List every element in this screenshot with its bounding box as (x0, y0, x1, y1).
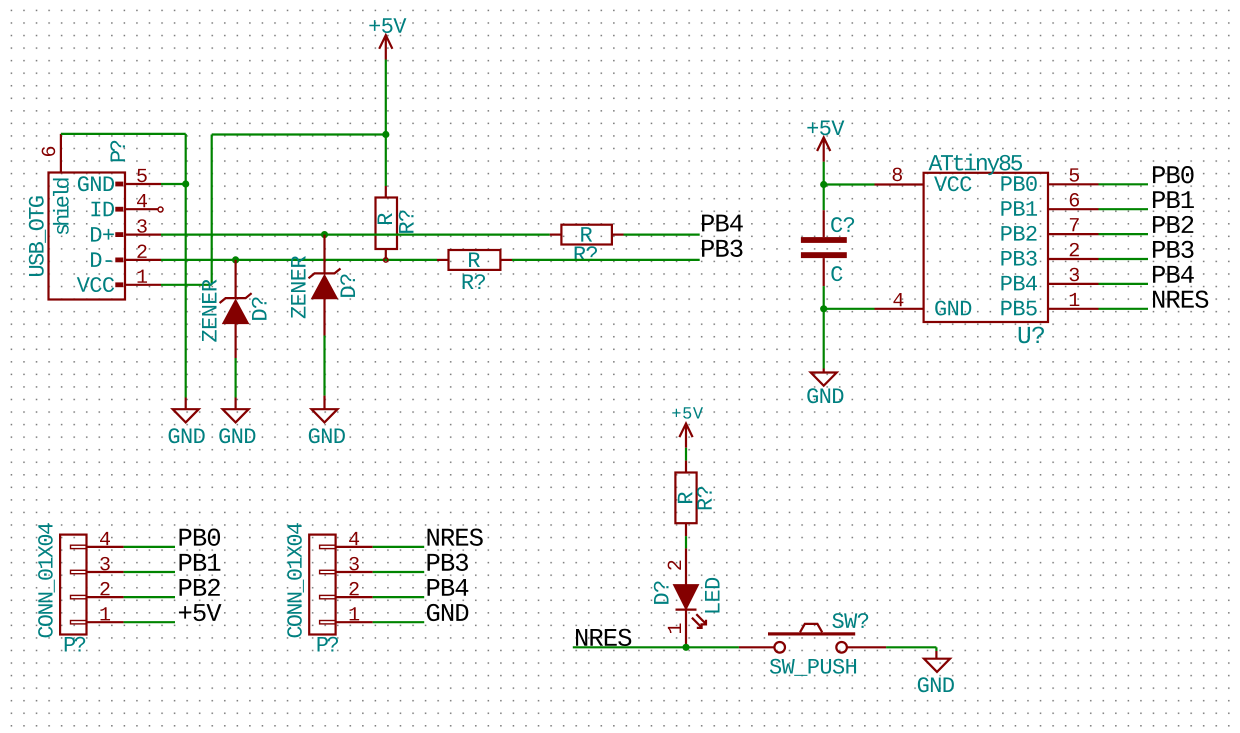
ground symbol ATtiny (811, 373, 837, 386)
power +5V label (LED) (672, 407, 703, 418)
net label PB4 (1153, 266, 1194, 283)
IC U1 pin number 8 (893, 168, 902, 182)
connector P3 pin 1 pad (320, 621, 336, 624)
wire P3 pin 1 to label GND (373, 621, 425, 623)
resistor R2 left pin (550, 234, 562, 236)
connector P1 pin 1 nub (115, 282, 123, 287)
zener D2 bottom pin (323, 299, 325, 336)
connector P1 pin number 3 (137, 219, 146, 233)
wire GND junction to pin4 (824, 308, 875, 310)
wire VCC pin1 horizontal (161, 284, 212, 286)
net label PB2 (1153, 216, 1193, 233)
junction GND net ATtiny (820, 305, 827, 312)
ground pin stub zener D2 (323, 396, 325, 410)
zener D2 top pin (323, 235, 325, 274)
connector P1 pin 4 unconnected circle (158, 207, 163, 212)
connector P3 body (309, 535, 335, 635)
zener D1 cathode bar (220, 293, 252, 303)
capacitor C1 bottom plate (801, 252, 847, 258)
ground symbol zener D2 (312, 409, 338, 422)
IC U1 pin 4 GND (875, 308, 924, 310)
connector P1 pin 6 shield (60, 134, 62, 173)
connector P3 pin 3 pad (320, 570, 336, 573)
junction NRES and LED (682, 644, 689, 651)
switch SW1 right pin (847, 646, 886, 648)
LED D3 triangle (673, 585, 698, 610)
ground label GND (ATtiny) (807, 388, 843, 403)
ground pin stub switch (935, 651, 937, 659)
resistor R3 reference R? (463, 274, 485, 289)
net label NRES (bottom) (576, 629, 631, 646)
net label GND (P3) (427, 604, 468, 621)
resistor R3 right pin (500, 259, 512, 261)
power +5V symbol (LED) (679, 424, 692, 448)
wire P2 pin 3 to label PB1 (124, 571, 175, 573)
wire +5V to VCC junction (823, 162, 825, 185)
connector P1 pin name ID (91, 202, 114, 216)
connector P1 pin 3 D+ (125, 234, 161, 236)
wire +5V symbol to junction (385, 60, 387, 135)
wire PB5 to label NRES (1099, 308, 1149, 310)
LED D3 cathode pin (685, 610, 687, 648)
connector P1 pin 3 nub (115, 232, 123, 237)
wire P3 pin 3 to label PB3 (373, 571, 425, 573)
net label PB0 (P2) (180, 529, 221, 546)
IC U1 pin number 3 (1070, 268, 1079, 282)
capacitor C1 bottom pin (823, 258, 825, 286)
switch SW1 value SW_PUSH (770, 659, 856, 676)
wire ground drop (935, 647, 937, 651)
IC U1 pin name PB4 (1001, 276, 1037, 290)
connector P1 pin name GND (78, 176, 114, 191)
zener D2 triangle (312, 275, 338, 299)
connector P1 pin 2 nub (115, 258, 123, 263)
connector P2 pin number 4 (100, 532, 110, 545)
IC U1 pin 7 PB2 stub (1048, 233, 1099, 235)
ground label GND (zener D1) (219, 428, 255, 443)
switch SW1 reference SW? (832, 613, 868, 628)
connector P1 pin name D- (91, 252, 111, 266)
resistor R4 top pin (685, 461, 687, 473)
IC U1 pin name GND (pin4) (935, 301, 971, 316)
net label NRES (P3) (428, 529, 483, 546)
wire VCC to +5V horizontal (212, 133, 386, 135)
zener D2 cathode bar (309, 269, 341, 279)
wire GND junction down (823, 309, 825, 369)
wire PB2 to label PB2 (1099, 233, 1149, 235)
wire D- from pin2 (161, 259, 437, 261)
IC U1 pin number 7 (1070, 218, 1079, 231)
ground symbol switch (924, 659, 950, 672)
connector P2 pin 1 stub (87, 621, 124, 623)
net label NRES (1153, 291, 1208, 308)
resistor R3 left pin (437, 259, 449, 261)
IC U1 pin 6 PB1 stub (1048, 208, 1099, 210)
IC U1 pin number 6 (1070, 193, 1079, 207)
resistor R2 right pin (612, 234, 624, 236)
IC U1 pin name PB3 (1001, 251, 1036, 266)
connector P2 pin number 2 (100, 582, 109, 595)
ground label GND (USB) (169, 428, 205, 443)
switch SW1 right contact (836, 642, 847, 653)
IC U1 pin 5 PB0 stub (1048, 183, 1099, 185)
junction D- and zener D1 (232, 256, 239, 263)
IC U1 pin number 4 (893, 293, 903, 306)
connector P3 pin number 1 (350, 607, 360, 620)
zener D1 bottom pin (235, 324, 237, 358)
IC U1 ATtiny85 body (924, 173, 1048, 322)
connector P2 value CONN_01X04 (38, 523, 55, 637)
ground pin stub ATtiny (823, 369, 825, 373)
connector P3 value CONN_01X04 (287, 523, 304, 637)
wire +5V to R4 (685, 448, 687, 461)
wire P3 pin 4 to label NRES (373, 546, 425, 548)
connector P2 reference P? (65, 637, 85, 652)
connector P2 pin 4 stub (87, 546, 124, 548)
connector P1 pin number 2 (137, 245, 146, 258)
IC U1 pin name PB1 (1001, 201, 1037, 215)
wire switch to ground corner (886, 646, 936, 648)
resistor R2 value R (581, 227, 592, 241)
capacitor C1 value C (831, 266, 842, 281)
junction GND net at pin5 (182, 180, 189, 187)
resistor R2 reference R? (575, 246, 597, 261)
connector P1 pin 2 D- (125, 259, 161, 261)
connector P3 pin 1 stub (336, 621, 373, 623)
capacitor C1 top plate (801, 237, 847, 243)
ground label GND (zener D2) (309, 428, 345, 443)
IC U1 pin name PB0 (1001, 176, 1036, 191)
net label PB3 (1153, 241, 1193, 258)
ground pin stub zener D1 (235, 398, 237, 410)
IC U1 value ATtiny85 (929, 154, 1023, 175)
connector P3 pin 2 pad (320, 595, 336, 598)
wire P2 pin 4 to label PB0 (124, 546, 175, 548)
resistor R1 value R (378, 213, 392, 224)
connector P2 pin number 1 (100, 607, 110, 620)
power +5V symbol (top) (379, 35, 392, 59)
ground label GND (switch) (918, 677, 954, 692)
wire D+ from pin3 (161, 234, 550, 236)
op IC U1 pin 8 VCC (875, 183, 924, 185)
wire shield top horizontal (61, 133, 186, 135)
LED D3 value LED (705, 578, 719, 613)
connector P1 pin 5 nub (115, 182, 123, 187)
connector P1 pin 4 ID (125, 208, 158, 210)
wire P2 pin 1 to label +5V (124, 621, 175, 623)
connector P3 reference P? (318, 637, 338, 652)
wire NRES to junction (573, 646, 739, 648)
connector P2 pin 4 pad (71, 545, 87, 548)
net label PB2 (P2) (180, 579, 220, 596)
resistor R3 value R (469, 253, 480, 267)
LED D3 pin number 2 (668, 561, 681, 570)
LED D3 reference D? (654, 581, 669, 603)
IC U1 pin 1 PB5 stub (1048, 308, 1099, 310)
wire VCC junction to pin8 (824, 183, 875, 185)
connector P1 pin number 1 (137, 270, 147, 283)
zener D2 reference D? (340, 274, 355, 296)
resistor R3 body (449, 250, 501, 270)
wire VCC junction down (823, 185, 825, 211)
wire R2 to PB4 label (624, 234, 700, 236)
LED D3 emission arrows (692, 614, 706, 628)
net label PB1 (1153, 191, 1194, 208)
wire P3 pin 2 to label PB4 (373, 596, 425, 598)
IC U1 pin 2 PB3 stub (1048, 258, 1099, 260)
wire PB1 to label PB1 (1099, 208, 1149, 210)
wire PB4 to label PB4 (1099, 283, 1149, 285)
wire GND pin5 to junction (161, 183, 186, 185)
net label PB3 (P3) (428, 554, 468, 571)
junction VCC net ATtiny (820, 181, 827, 188)
power +5V label (ATtiny) (807, 121, 844, 136)
connector P1 pin number 4 (137, 194, 147, 207)
wire P2 pin 2 to label PB2 (124, 596, 175, 598)
connector P3 pin 4 pad (320, 545, 336, 548)
wire C1 to GND junction (823, 286, 825, 309)
ground pin stub USB (185, 398, 187, 410)
wire VCC riser vertical (211, 135, 213, 285)
junction D+ and zener D2 (321, 231, 328, 238)
ground symbol zener D1 (223, 409, 249, 422)
connector P3 pin 3 stub (336, 571, 373, 573)
LED D3 pin number 1 (668, 623, 681, 633)
connector P2 pin 3 stub (87, 571, 124, 573)
connector P3 pin number 3 (349, 557, 358, 571)
connector P3 pin 2 stub (336, 596, 373, 598)
wire zener D2 to ground (323, 336, 325, 396)
capacitor C1 reference C? (831, 217, 854, 232)
wire +5V down to R1 (385, 135, 387, 187)
wire PB0 to label PB0 (1099, 183, 1149, 185)
LED D3 cathode bar (676, 608, 697, 610)
LED D3 anode pin (685, 548, 687, 584)
net label PB4 (P3) (428, 579, 469, 596)
wire R4 to LED (685, 536, 687, 548)
IC U1 pin name VCC (934, 176, 971, 191)
resistor R1 top pin (385, 186, 387, 198)
zener D2 value ZENER (291, 256, 305, 318)
zener D1 reference D? (252, 297, 267, 319)
wire R3 to PB3 label (512, 259, 700, 261)
resistor R1 body (376, 198, 398, 250)
switch SW1 bar (768, 632, 855, 635)
wire PB3 to label PB3 (1099, 258, 1149, 260)
IC U1 pin 3 PB4 stub (1048, 283, 1099, 285)
net label PB1 (P2) (180, 554, 221, 571)
IC U1 pin name PB5 (1001, 301, 1036, 316)
zener D1 top pin (235, 260, 237, 298)
net label +5V (P2) (179, 604, 222, 621)
connector P1 pin number 5 (137, 169, 146, 182)
net label PB0 (1153, 166, 1194, 183)
resistor R4 value R (678, 492, 692, 503)
connector P1 pin number 6 (42, 147, 56, 156)
connector P1 pin 5 GND (125, 183, 161, 185)
resistor R1 bottom pin end circle (384, 258, 388, 262)
connector P3 pin number 2 (350, 582, 359, 595)
wire shield-GND vertical (185, 134, 187, 398)
switch SW1 left pin (739, 646, 774, 648)
connector P1 value USB_OTG (29, 196, 46, 276)
connector P2 pin number 3 (100, 557, 109, 571)
connector P2 pin 2 stub (87, 596, 124, 598)
connector P2 pin 1 pad (71, 621, 87, 624)
wire zener D1 to ground (235, 358, 237, 398)
IC U1 pin name PB2 (1001, 226, 1036, 241)
resistor R1 bottom pin (385, 249, 387, 260)
switch SW1 actuator (800, 624, 822, 632)
IC U1 pin number 2 (1070, 243, 1079, 256)
ground symbol USB (173, 409, 199, 422)
resistor R4 reference R? (697, 487, 712, 509)
junction +5V net (382, 131, 389, 138)
net label PB3 (702, 240, 742, 257)
IC U1 reference U? (1019, 327, 1044, 344)
connector P2 pin 2 pad (71, 595, 87, 598)
IC U1 pin number 5 (1070, 168, 1079, 181)
resistor R2 body (561, 225, 612, 245)
connector P3 pin 4 stub (336, 546, 373, 548)
resistor R1 reference R? (399, 210, 414, 232)
connector P2 body (60, 535, 86, 635)
connector P1 pin name shield (53, 178, 69, 234)
connector P1 pin name D+ (91, 227, 114, 241)
resistor R4 bottom pin (685, 523, 687, 536)
connector P1 USB_OTG body (49, 173, 126, 300)
switch SW1 left contact (774, 642, 785, 653)
IC U1 pin number 1 (1070, 293, 1080, 306)
connector P1 reference P? (110, 141, 125, 161)
connector P1 pin name VCC (77, 277, 114, 292)
net label PB4 (702, 215, 743, 232)
zener D1 value ZENER (202, 279, 216, 341)
capacitor C1 top pin (823, 210, 825, 237)
connector P3 pin number 4 (349, 532, 359, 545)
power +5V label (top) (369, 18, 406, 33)
resistor R4 body (675, 473, 696, 524)
connector P2 pin 3 pad (71, 570, 87, 573)
power +5V symbol (ATtiny) (817, 137, 830, 161)
connector P1 pin 4 nub (115, 207, 123, 212)
zener D1 triangle (223, 300, 249, 324)
connector P1 pin 1 VCC (125, 284, 161, 286)
